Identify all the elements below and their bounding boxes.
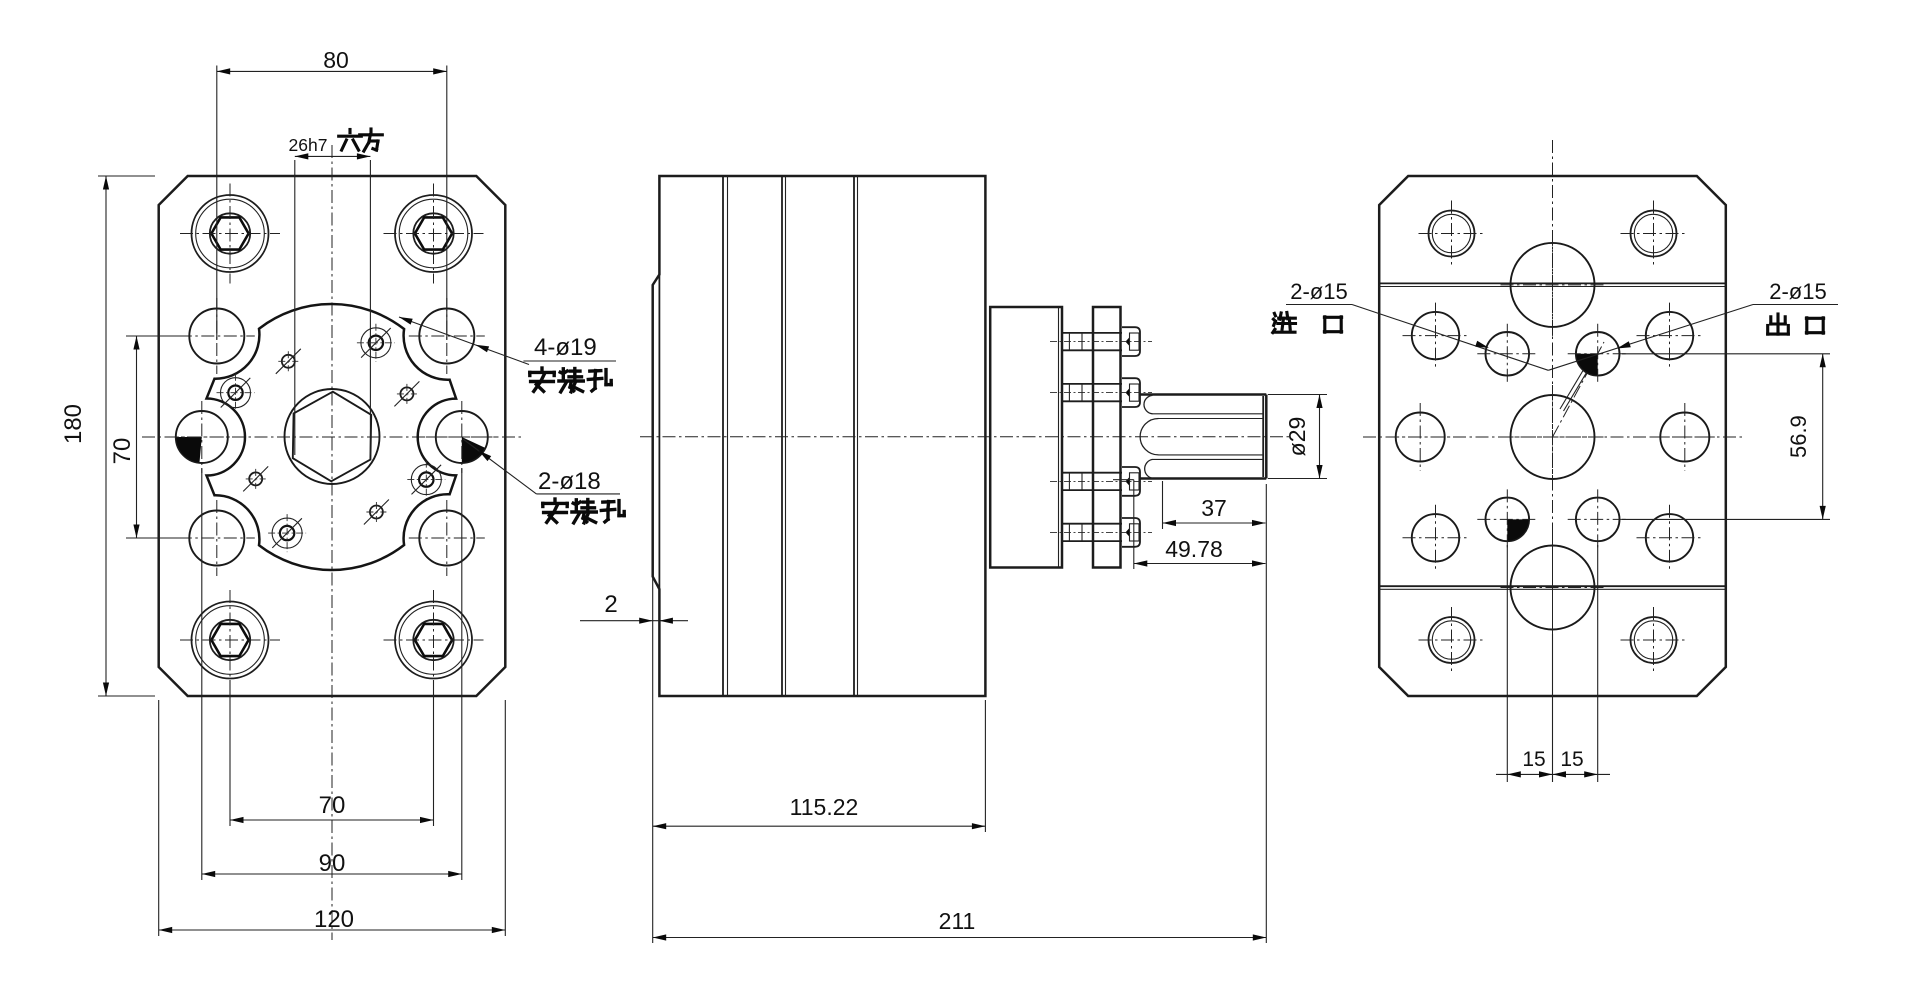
svg-text:2-ø15: 2-ø15 [1290,279,1347,304]
left view: pump front plate outline 120x180 with chamfered corners [159,176,506,696]
gear housing scalloped contour [207,304,457,570]
dimension 115.22 [653,700,986,832]
lower joint line (double) [1379,585,1726,587]
leader inlet [1352,305,1548,371]
label 2-ø15 inlet [1286,279,1352,305]
svg-text:15: 15 [1522,748,1545,771]
mounting hole 4-ø19 #1 [179,298,255,374]
rear flange plate [1093,307,1121,568]
assembly screw rosette #3 [268,514,306,552]
spline runout arcs (left end caps) [1140,395,1158,478]
dimension 90 (bottom) [202,468,462,880]
dimension 26h7 hex (text + dim line) [289,135,371,455]
svg-text:180: 180 [60,404,87,444]
right view vertical centerline [1552,140,1554,705]
label outlet CJK (chu kou) [1768,314,1789,334]
dimension 211 [653,484,1267,943]
left view horizontal centerline [142,436,522,438]
dimension 37 (spline length) [1163,481,1266,529]
right view: rear plate outline with chamfered corners [1379,176,1726,696]
label hexagon (CJK liu fang) [339,130,362,151]
mounting hole 2-ø18 left (with black sector) [166,401,238,473]
mounting hole 2-ø18 right (with black sector) [426,401,498,473]
svg-text:56.9: 56.9 [1786,415,1811,458]
plate joint line 3 (double) [853,176,855,696]
svg-text:115.22: 115.22 [790,794,859,820]
svg-text:15: 15 [1560,748,1583,771]
rear bolt hole #2 [1621,201,1687,267]
svg-text:2-ø15: 2-ø15 [1769,279,1826,304]
rear side hole #2 [1651,403,1719,471]
flange bolt 2 with socket head [1050,378,1152,407]
rear mounting hole #4 [1637,505,1703,571]
dimension 49.78 [1113,480,1266,569]
dimension 70 (left, vertical between hole rows) [109,336,187,538]
assembly screw rosette #2 [357,324,395,362]
splined shaft outline [1140,395,1267,479]
spline lines [1153,414,1264,460]
plate joint line 1 (double) [722,176,724,696]
port lower-left (black sector) [1477,489,1537,549]
svg-text:49.78: 49.78 [1165,536,1223,562]
rear bolt hole #4 [1621,607,1687,673]
svg-text:70: 70 [319,792,346,819]
small pin hole with diagonal tick #4 [364,500,389,525]
socket head cap screw 4 (left view corner bolt) [384,590,484,690]
leader 2-ø18 with arrow [463,439,620,494]
mounting hole 4-ø19 #2 [409,298,485,374]
label mounting hole 2 (CJK an zhuang kong) [543,499,567,522]
flange bolt 1 with socket head [1050,327,1152,356]
svg-text:2: 2 [604,591,617,618]
leader outlet [1548,305,1753,371]
svg-text:4-ø19: 4-ø19 [534,334,597,361]
svg-text:70: 70 [109,438,136,465]
large bore circle #3 [1501,536,1605,640]
dimension 180 (left, vertical) [60,176,155,696]
svg-text:2-ø18: 2-ø18 [538,468,601,495]
upper joint line (double) [1379,282,1726,284]
rear side hole #1 [1386,403,1454,471]
label inlet CJK (jin kou) [1273,313,1296,333]
svg-text:90: 90 [319,850,346,877]
rear mounting hole #2 [1637,303,1703,369]
label mounting hole (CJK an zhuang kong) [530,368,554,391]
rear mounting hole #1 [1403,303,1469,369]
rear mounting hole #3 [1403,505,1469,571]
label 2-ø15 outlet [1753,279,1838,305]
svg-text:ø29: ø29 [1284,417,1310,457]
left view vertical centerline [331,145,333,940]
bearing housing block [990,307,1062,568]
outlet port upper-right (black sector) [1568,324,1628,384]
socket head cap screw 3 (left view corner bolt) [180,590,280,690]
small pin hole with diagonal tick #1 [276,349,301,374]
dimension ø29 (shaft) [1268,395,1327,479]
svg-text:120: 120 [314,906,354,933]
small pin hole with diagonal tick #2 [394,381,419,406]
middle view horizontal centerline [640,436,1292,438]
double-line leader to outlet port [1560,356,1592,410]
bearing block right edge inner line [1058,307,1060,568]
flange bolt 3 with socket head [1050,467,1152,496]
inlet port upper-left [1477,324,1537,384]
rear bolt hole #1 [1419,201,1485,267]
middle view: pump body outline with left boss step [653,176,986,696]
large bore circle #1 [1501,233,1605,337]
assembly screw rosette #1 [217,374,255,412]
dimension 56.9 (right) [1622,354,1830,520]
large bore circle #2 [1501,385,1605,489]
right view horizontal centerline [1363,436,1742,438]
svg-text:26h7: 26h7 [289,135,328,155]
mounting hole 4-ø19 #3 [179,500,255,576]
leader 4-ø19 with two arrows [399,317,616,365]
dimension 15 15 (bottom ports) [1496,545,1610,782]
diagonal centerline to outlet port [1553,342,1605,437]
central hex bore circle [285,389,380,484]
dimension 2 (left step) [580,577,688,943]
small pin hole with diagonal tick #3 [243,466,268,491]
port lower-right [1568,489,1628,549]
svg-text:80: 80 [323,47,349,73]
svg-text:211: 211 [939,908,976,934]
rear bolt hole #3 [1419,607,1485,673]
dimension 70 (bottom, between lower bolts) [230,680,434,826]
mounting hole 4-ø19 #4 [409,500,485,576]
central hexagon 26h7 (pointy-top) [293,392,371,482]
flange bolt 4 with socket head [1050,518,1152,547]
body left face edge line [658,275,660,590]
svg-text:37: 37 [1201,495,1227,521]
plate joint line 2 (double) [781,176,783,696]
assembly screw rosette #4 [407,461,445,499]
dimension 80 (top) [217,47,447,340]
dimension 120 (bottom overall) [159,700,506,936]
socket head cap screw 1 (left view corner bolt) [180,184,280,284]
socket head cap screw 2 (left view corner bolt) [384,184,484,284]
